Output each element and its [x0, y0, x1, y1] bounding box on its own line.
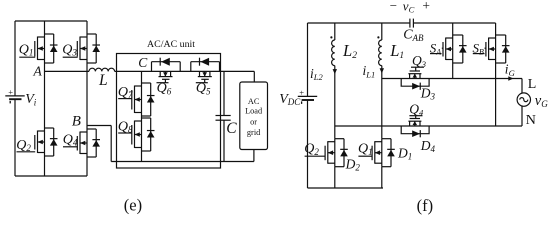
svg-text:L: L — [98, 72, 108, 89]
svg-text:grid: grid — [247, 128, 261, 137]
svg-text:AC: AC — [248, 97, 260, 106]
svg-text:or: or — [250, 118, 257, 127]
svg-text:N: N — [526, 113, 536, 128]
svg-text:−: − — [390, 0, 397, 13]
svg-text:C: C — [226, 120, 237, 137]
svg-text:C: C — [138, 55, 148, 70]
svg-text:L: L — [528, 77, 537, 92]
svg-text:+: + — [8, 87, 13, 97]
svg-text:+: + — [422, 0, 430, 13]
svg-text:AC/AC unit: AC/AC unit — [147, 39, 195, 50]
svg-text:(f): (f) — [417, 196, 433, 215]
svg-text:Load: Load — [245, 107, 263, 116]
svg-text:B: B — [72, 113, 81, 129]
svg-text:(e): (e) — [124, 196, 142, 215]
svg-text:A: A — [33, 64, 43, 79]
svg-text:+: + — [299, 87, 304, 97]
